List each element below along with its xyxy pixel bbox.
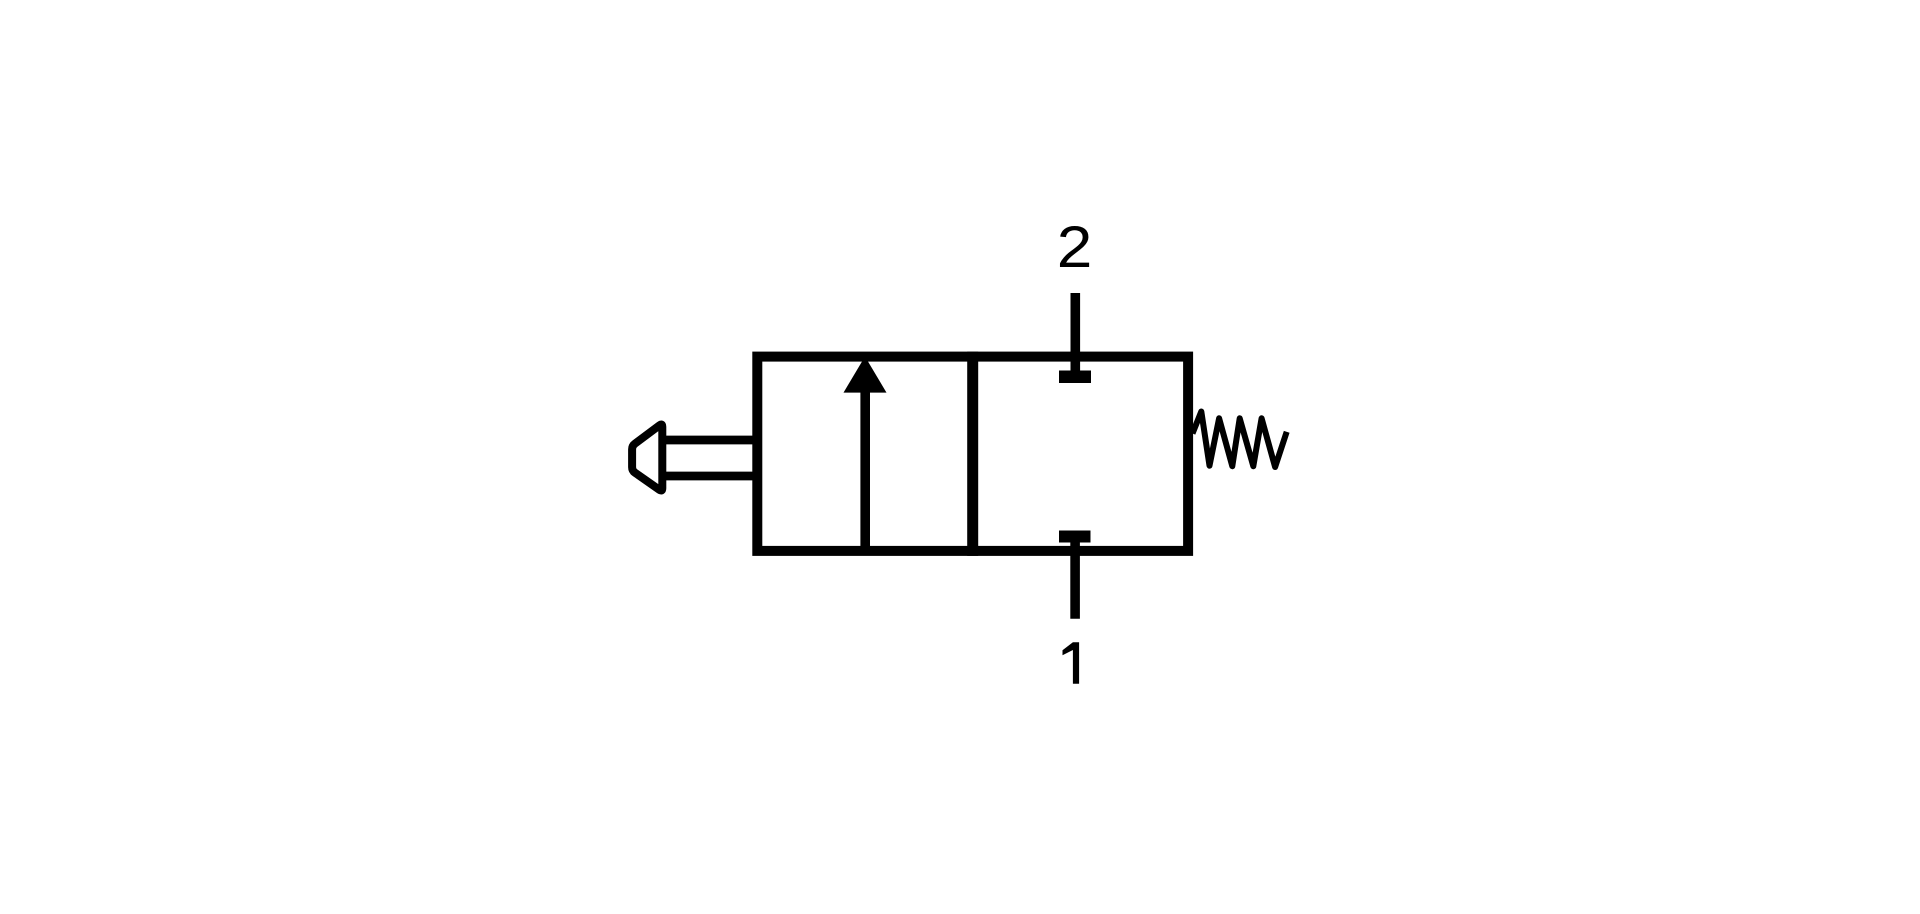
svg-text:2: 2 — [1057, 214, 1093, 280]
port 1 line — [1070, 536, 1080, 619]
blocked port symbol bottom — [1059, 531, 1091, 543]
port 2 line — [1071, 293, 1081, 377]
push button stem top line — [662, 436, 757, 445]
push button stem bottom line — [662, 472, 757, 481]
return spring — [1193, 412, 1287, 468]
port label 1 — [1063, 642, 1080, 684]
valve position divider — [967, 352, 978, 556]
flow arrow shaft — [860, 390, 870, 553]
push button actuator head — [632, 425, 662, 491]
valve body outer rectangle — [757, 357, 1188, 551]
flow arrow head — [844, 357, 887, 393]
blocked port symbol top — [1059, 371, 1091, 384]
